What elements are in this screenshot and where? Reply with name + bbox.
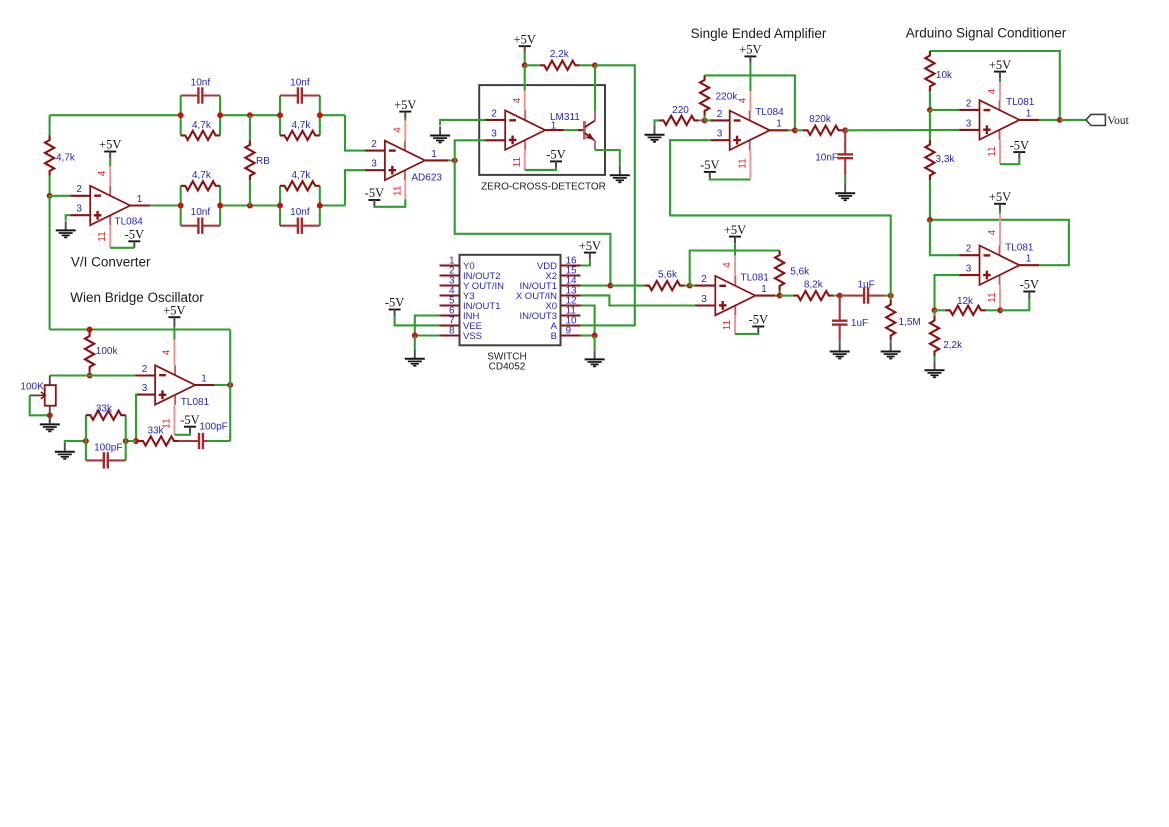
ground U1 pin3 <box>65 221 67 229</box>
wire wien fb vertical <box>229 330 231 442</box>
svg-text:4,7k: 4,7k <box>192 120 212 131</box>
wire gnd to pin2 U3 <box>440 120 485 125</box>
wire RB top lead <box>249 115 251 140</box>
junction RC block2 left <box>277 112 283 118</box>
svg-text:3: 3 <box>491 129 497 140</box>
junction RC block3 right <box>217 203 223 209</box>
wire feedback SEA <box>705 75 795 130</box>
pin 7 stub U4 <box>440 324 460 326</box>
wire RC block4 right vertical <box>319 186 321 226</box>
pin 2 stub U1 <box>70 195 90 197</box>
pin 1 stub U2 <box>425 159 449 161</box>
resistor 5,6k series <box>645 281 685 290</box>
capacitor 10nF <box>837 153 853 155</box>
wire -5V ard2 <box>1000 298 1029 310</box>
resistor 4,7k RC block1 <box>181 131 220 140</box>
svg-text:220k: 220k <box>716 92 739 103</box>
wire 5,6k fb to out <box>779 291 781 296</box>
pin 1 stub ard1 <box>1020 119 1040 121</box>
svg-text:100pF: 100pF <box>199 421 227 432</box>
ground pot <box>49 415 51 423</box>
wire RC block1 left vertical <box>180 96 182 136</box>
pin 1 stub amp3 <box>755 295 775 297</box>
svg-text:2: 2 <box>142 364 148 375</box>
junction highpass node <box>888 293 894 299</box>
svg-text:TL081: TL081 <box>1005 242 1034 253</box>
wire 100pF to fb <box>207 440 230 442</box>
pin 15 stub U4 <box>561 274 581 276</box>
resistor 10k <box>925 51 934 91</box>
wire -5V wien <box>174 433 190 435</box>
svg-text:10nf: 10nf <box>290 78 310 89</box>
wire +5V ard2 <box>999 210 1001 213</box>
svg-text:5,6k: 5,6k <box>658 269 678 280</box>
wire divider to pin2 ard2 <box>930 220 960 255</box>
wire +5V to VDD <box>581 259 590 265</box>
transistor Q1 <box>578 129 584 131</box>
ground wien RC <box>64 443 66 451</box>
junction Vout node <box>1057 117 1063 123</box>
resistor 220 <box>659 116 699 125</box>
wire node to collector <box>594 65 596 111</box>
wire -5V amp3 <box>735 332 758 335</box>
resistor RB <box>245 140 254 180</box>
capacitor 1uF series <box>863 287 865 303</box>
pin 4 U2 power pin <box>404 121 406 141</box>
pin 1 stub wien <box>195 384 215 386</box>
pin 2 stub U3 <box>485 119 505 121</box>
capacitor 10nf RC block2 <box>297 87 299 103</box>
wire 1uF to node2 <box>884 295 891 297</box>
svg-text:100k: 100k <box>96 346 119 357</box>
pin 11 wien power pin <box>173 405 175 435</box>
junction wien pin3 node <box>133 438 139 444</box>
svg-text:220: 220 <box>672 105 689 116</box>
svg-text:1,5M: 1,5M <box>899 317 921 328</box>
wire pin2 amp3 <box>690 285 695 287</box>
pin 4 wien power pin <box>173 340 175 366</box>
pin 3 stub U4 <box>440 284 460 286</box>
wire out to 820k <box>795 129 803 131</box>
pin 2 stub ard2 <box>960 254 980 256</box>
wire below input resistor <box>49 176 51 196</box>
wire 3,3k top lead <box>929 110 931 140</box>
wire +5V amp3 <box>734 243 736 256</box>
svg-text:4,7k: 4,7k <box>291 170 311 181</box>
wire +5V to node <box>524 53 526 66</box>
pin 2 stub wien <box>135 374 155 376</box>
junction wien pin2 node <box>87 373 93 379</box>
wire SEA node to Arduino pin3 <box>845 129 959 132</box>
junction pin11 -5V node <box>997 307 1003 313</box>
svg-text:4: 4 <box>987 88 998 94</box>
svg-text:1: 1 <box>776 119 782 130</box>
pin 9 stub U4 <box>561 334 581 336</box>
junction VSS gnd <box>412 333 418 339</box>
wire -5V to VEE <box>395 316 440 325</box>
svg-text:+5V: +5V <box>724 223 746 237</box>
pin 13 stub U4 <box>561 294 581 296</box>
wire emitter to ground <box>595 150 620 166</box>
pin 3 stub wien <box>135 394 155 396</box>
resistor 3,3k <box>925 140 934 180</box>
connector Vout <box>1086 114 1106 125</box>
wire pin9 to gnd node <box>581 334 595 336</box>
svg-text:8,2k: 8,2k <box>804 279 824 290</box>
svg-text:1uF: 1uF <box>857 279 874 290</box>
junction RC right <box>123 438 129 444</box>
svg-text:2: 2 <box>717 109 723 120</box>
wire pin2 ard1 <box>930 109 960 111</box>
pin 4 SEA power pin <box>749 91 751 111</box>
svg-text:4: 4 <box>97 170 108 176</box>
pin 4 amp3 power pin <box>734 256 736 276</box>
junction RC block4 right <box>317 203 323 209</box>
pin 2 stub ard1 <box>960 109 980 111</box>
wire U2 out to junction <box>448 159 454 161</box>
wire RC block4 left vertical <box>279 186 281 226</box>
wire amp3 out <box>775 295 780 297</box>
svg-text:8: 8 <box>449 326 455 337</box>
svg-text:+5V: +5V <box>99 138 121 152</box>
svg-text:TL081: TL081 <box>1006 97 1035 108</box>
wire RC block3 left vertical <box>180 186 182 226</box>
svg-text:10nf: 10nf <box>290 207 310 218</box>
wire to pin2 U1 <box>50 195 71 197</box>
svg-text:11: 11 <box>987 146 998 157</box>
wire bottom row to AD623 pin3 <box>345 170 365 205</box>
junction RC block1 right <box>217 112 223 118</box>
wire RC block2 left vertical <box>279 96 281 136</box>
svg-text:4: 4 <box>722 262 733 268</box>
svg-text:+5V: +5V <box>739 43 761 57</box>
junction RB top <box>247 112 253 118</box>
wire gnd to RC <box>65 441 86 443</box>
pin 1 stub U1 <box>130 204 150 206</box>
svg-text:2,2k: 2,2k <box>550 49 570 60</box>
svg-text:TL084: TL084 <box>115 217 144 228</box>
svg-text:-5V: -5V <box>546 148 565 162</box>
wire +5V wien <box>173 326 175 340</box>
wire to Vout <box>1060 119 1086 121</box>
wire wien out <box>215 384 231 386</box>
svg-text:1: 1 <box>1026 254 1032 265</box>
resistor 4,7k RC block4 <box>280 181 320 190</box>
svg-text:4: 4 <box>392 127 403 133</box>
svg-text:5,6k: 5,6k <box>790 267 810 278</box>
pot bottom pin <box>49 406 51 416</box>
wire +5V ard1 <box>999 78 1001 82</box>
svg-text:-5V: -5V <box>125 228 144 242</box>
svg-text:Arduino Signal Conditioner: Arduino Signal Conditioner <box>906 26 1067 41</box>
resistor 4,7k RC block2 <box>280 131 320 140</box>
svg-text:AD623: AD623 <box>411 173 442 184</box>
wire 220k bottom lead <box>704 115 706 120</box>
junction ZCD left top <box>522 62 528 68</box>
wire -5V to pin11 U1 <box>110 247 134 249</box>
svg-text:12k: 12k <box>957 296 974 307</box>
svg-text:4: 4 <box>512 97 523 103</box>
op-amp SEA TL084 <box>749 111 751 121</box>
svg-text:TL081: TL081 <box>181 397 210 408</box>
ground 1,5M <box>890 341 892 343</box>
junction 100k top <box>87 327 93 333</box>
wire ZCD to switch A <box>581 65 635 325</box>
svg-text:1: 1 <box>137 194 143 205</box>
wire pin14 node to 5,6k <box>610 285 644 287</box>
op-amp U1 TL084 <box>109 186 111 196</box>
pin 3 stub ard2 <box>960 274 980 276</box>
wire top row right span <box>320 114 345 116</box>
svg-text:2: 2 <box>371 139 377 150</box>
wire pin3 U1 to gnd corner <box>66 215 71 220</box>
junction RC left <box>83 438 89 444</box>
junction SEA pin2 node <box>702 117 708 123</box>
wire Wien top <box>50 328 231 330</box>
resistor 8,2k <box>793 291 833 300</box>
node A: V/I input net top wire <box>50 114 181 116</box>
pin 3 stub SEA <box>711 139 730 141</box>
svg-text:3: 3 <box>371 159 377 170</box>
pin 5 stub U4 <box>440 304 460 306</box>
svg-text:2: 2 <box>966 244 972 255</box>
svg-text:Single Ended Amplifier: Single Ended Amplifier <box>691 26 827 41</box>
pin 11 U3 power pin <box>524 150 526 170</box>
pin 4 U1 power pin <box>109 166 111 186</box>
wire 100k bottom lead <box>89 372 91 376</box>
op-amp U2 AD623 <box>404 141 406 151</box>
capacitor 100pF series <box>198 433 200 449</box>
wire divider node <box>930 220 1069 265</box>
wire -5V to pin11 U3 <box>525 168 556 170</box>
ground U4 VSS <box>414 336 416 350</box>
pin 2 stub amp3 <box>695 285 716 287</box>
pin 1 stub SEA <box>770 129 789 131</box>
box switch CD4052 <box>460 255 561 345</box>
svg-text:-5V: -5V <box>1020 278 1039 292</box>
wire pin12 to gnd node <box>581 306 595 336</box>
svg-text:100pF: 100pF <box>94 443 122 454</box>
pin 2 stub U4 <box>440 274 460 276</box>
wire highpass to SEA pin3 <box>670 140 891 295</box>
svg-text:4,7k: 4,7k <box>192 170 212 181</box>
svg-text:+5V: +5V <box>989 190 1011 204</box>
junction amp3 output <box>777 293 783 299</box>
wire RB bottom lead <box>249 180 251 205</box>
svg-text:1uF: 1uF <box>851 318 868 329</box>
svg-text:3: 3 <box>142 383 148 394</box>
svg-text:1: 1 <box>201 373 207 384</box>
wire 1,5M bottom lead <box>890 340 892 342</box>
wire top row mid span <box>220 114 280 116</box>
wire pin13 to amp3 pin3 <box>581 295 695 305</box>
junction ard1 pin2 node <box>927 107 933 113</box>
junction filter node <box>837 293 843 299</box>
svg-text:B: B <box>551 331 557 342</box>
pin 11 amp3 power pin <box>734 315 736 334</box>
svg-text:-5V: -5V <box>180 413 199 427</box>
svg-text:RB: RB <box>256 156 270 167</box>
pin 12 stub U4 <box>561 304 581 306</box>
resistor 2,2k ZCD <box>540 61 580 70</box>
junction input node <box>47 193 53 199</box>
svg-text:3: 3 <box>76 204 82 215</box>
junction RC block2 right <box>317 112 323 118</box>
op-amp U3 LM311 <box>524 110 526 120</box>
svg-text:-5V: -5V <box>385 296 404 310</box>
pin 4 ard1 power pin <box>999 82 1001 100</box>
svg-text:10nf: 10nf <box>191 207 211 218</box>
wire RC block1 right vertical <box>219 96 221 136</box>
junction divider node <box>927 217 933 223</box>
svg-text:VSS: VSS <box>463 331 482 342</box>
wire -5V to pin11 U2 <box>374 199 405 207</box>
wire RC mid <box>126 440 136 442</box>
wire 8,2k to node <box>833 295 839 297</box>
svg-text:2: 2 <box>966 98 972 109</box>
pin 3 stub U2 <box>365 169 385 171</box>
svg-text:11: 11 <box>97 231 108 242</box>
wire pin3 wien down <box>134 395 137 441</box>
pin 3 stub ard1 <box>960 129 980 131</box>
wire RC block2 right vertical <box>319 96 321 136</box>
wire bottom row right span <box>320 204 345 206</box>
pin 11 U1 power pin <box>109 225 111 248</box>
svg-text:-5V: -5V <box>700 158 719 172</box>
pin 10 stub U4 <box>561 324 581 326</box>
capacitor 10nf RC block3 <box>197 218 199 234</box>
wire 5,6k to pin2 node <box>685 285 690 287</box>
wire RC block3 right vertical <box>219 186 221 226</box>
potentiometer RV1 100K <box>45 385 56 406</box>
ground 2,2k <box>933 356 935 361</box>
op-amp wien TL081 <box>174 365 176 375</box>
svg-text:3,3k: 3,3k <box>936 154 956 165</box>
op-amp amp3 TL081 <box>734 276 736 286</box>
wire 2,2k left lead <box>525 64 540 66</box>
pin 11 ard1 power pin <box>999 140 1001 165</box>
wire VSS INH tie <box>415 316 440 336</box>
svg-text:820k: 820k <box>809 114 832 125</box>
wire U2 node to pin3 U3 <box>455 140 486 160</box>
svg-text:10nF: 10nF <box>815 152 838 163</box>
resistor 820k <box>803 126 843 135</box>
wire pin2 SEA <box>705 119 711 121</box>
svg-text:-5V: -5V <box>365 186 384 200</box>
wire 10k top feedback <box>930 51 1060 120</box>
capacitor 10nf RC block1 <box>197 87 199 103</box>
svg-text:4: 4 <box>738 97 749 103</box>
svg-text:1: 1 <box>431 149 437 160</box>
wire long vertical to Wien <box>49 196 51 330</box>
resistor 12k <box>946 306 986 315</box>
wire feedback amp3 <box>690 251 780 286</box>
pin 11 U2 power pin <box>404 180 406 199</box>
wire -5V SEA <box>710 178 751 179</box>
svg-text:+5V: +5V <box>163 303 185 317</box>
wire pin4 green U3 <box>524 65 526 90</box>
junction pin14 node <box>607 283 613 289</box>
pot top pin <box>49 376 51 386</box>
pin 16 stub U4 <box>561 264 581 266</box>
svg-text:Vout: Vout <box>1107 115 1129 127</box>
svg-text:+5V: +5V <box>514 32 536 46</box>
wire RC right vertical <box>125 415 127 460</box>
ground Q1 emitter <box>619 166 621 174</box>
pot gnd stem <box>49 415 51 424</box>
svg-text:+5V: +5V <box>579 239 601 253</box>
svg-text:10k: 10k <box>936 70 953 81</box>
svg-text:10nf: 10nf <box>191 78 211 89</box>
wire U3 out to base <box>564 129 579 131</box>
svg-text:1: 1 <box>1026 108 1032 119</box>
pin 3 stub U1 <box>70 214 90 216</box>
svg-text:TL084: TL084 <box>755 107 784 118</box>
svg-text:11: 11 <box>738 158 749 169</box>
pin 3 stub U3 <box>485 139 505 141</box>
svg-text:ZERO-CROSS-DETECTOR: ZERO-CROSS-DETECTOR <box>481 181 606 192</box>
pin 6 stub U4 <box>440 314 460 316</box>
svg-text:33k: 33k <box>147 426 164 437</box>
pot wiper pin <box>30 394 39 396</box>
wire left vertical input <box>49 115 51 135</box>
wire 220 to pin2 node <box>699 119 705 121</box>
resistor 4,7k RC block3 <box>181 181 220 190</box>
junction RC block1 left <box>178 112 184 118</box>
wire 1,5M top lead <box>890 296 892 300</box>
wire 3,3k bottom lead <box>929 180 931 220</box>
pin 2 stub U2 <box>365 150 385 152</box>
op-amp ard1 TL081 <box>999 100 1001 110</box>
junction amp3 pin2 node <box>687 283 693 289</box>
pin 11 stub U4 <box>561 314 581 316</box>
junction SEA filter node <box>842 127 848 133</box>
wire 12k left lead <box>935 309 946 311</box>
resistor 1,5M <box>886 300 895 340</box>
ground 1uF shunt <box>839 340 841 343</box>
wire 820k to node <box>843 129 845 131</box>
pin 1 stub U3 <box>545 129 563 131</box>
wire pin14 to junction <box>581 285 611 287</box>
svg-text:11: 11 <box>722 319 733 330</box>
pin 4 U3 power pin <box>524 91 526 111</box>
resistor 33k parallel <box>86 411 126 420</box>
svg-text:3: 3 <box>717 129 723 140</box>
junction wien output <box>227 382 233 388</box>
svg-text:2: 2 <box>491 108 497 119</box>
pin 1 stub U4 <box>440 264 460 266</box>
svg-text:4: 4 <box>162 349 173 355</box>
svg-text:11: 11 <box>512 156 523 167</box>
svg-text:100K: 100K <box>20 382 44 393</box>
junction U2 output node <box>452 157 458 163</box>
svg-text:3: 3 <box>966 264 972 275</box>
svg-text:4,7k: 4,7k <box>56 153 76 164</box>
capacitor 1uF shunt <box>832 320 848 322</box>
wire pin3 ard2 down <box>935 275 960 310</box>
svg-text:3: 3 <box>701 294 707 305</box>
pin 2 stub SEA <box>711 119 730 121</box>
wire bottom row mid span <box>220 204 280 206</box>
svg-text:1: 1 <box>761 284 767 295</box>
wire pin2 row wien <box>50 374 135 376</box>
wire 2,2k top lead <box>933 310 935 316</box>
svg-text:11: 11 <box>392 185 403 196</box>
pin 3 stub amp3 <box>695 304 716 306</box>
wire top row to AD623 pin2 <box>345 115 365 150</box>
wire gnd to 220 <box>655 120 659 125</box>
ground U3 pin2 <box>439 126 441 134</box>
